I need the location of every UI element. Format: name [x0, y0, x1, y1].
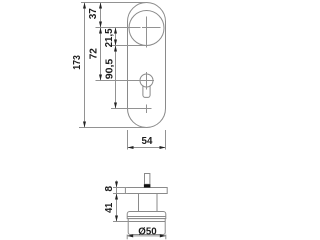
- svg-text:21,5: 21,5: [104, 28, 115, 47]
- svg-text:37: 37: [88, 8, 99, 19]
- svg-text:72: 72: [89, 48, 100, 59]
- svg-text:54: 54: [142, 136, 153, 147]
- svg-text:41: 41: [104, 202, 115, 212]
- svg-text:Ø50: Ø50: [138, 226, 157, 237]
- svg-text:90,5: 90,5: [105, 58, 116, 79]
- svg-text:173: 173: [72, 55, 83, 70]
- svg-text:8: 8: [104, 186, 115, 192]
